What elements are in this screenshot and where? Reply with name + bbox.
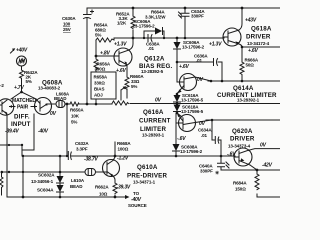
test point circle +40V <box>17 56 27 66</box>
wire 0V lower rail y120 <box>206 119 280 121</box>
wire 0V top rail <box>208 80 280 82</box>
svg-text:+43V: +43V <box>245 18 257 24</box>
svg-text:PRE-DRIVER: PRE-DRIVER <box>127 173 167 180</box>
svg-text:13-34172-4: 13-34172-4 <box>247 41 270 46</box>
svg-text:0V: 0V <box>155 98 162 104</box>
wire Q620A emitter lead <box>250 165 257 170</box>
svg-text:Q614A: Q614A <box>233 85 254 92</box>
svg-text:C634A: C634A <box>198 128 212 133</box>
svg-text:50Ω: 50Ω <box>246 63 255 68</box>
wire Q614A emitter column <box>176 94 178 103</box>
wire C638A row <box>144 37 185 39</box>
wire top +43V rail <box>87 7 280 9</box>
resistor R656A <box>94 56 98 71</box>
svg-text:+1.3V: +1.3V <box>114 42 127 48</box>
svg-text:5%: 5% <box>95 33 101 38</box>
potentiometer wiper arrow <box>121 88 125 101</box>
transistor Q610A pre-driver <box>103 160 120 177</box>
svg-text:R662A: R662A <box>95 185 109 190</box>
svg-text:TO: TO <box>133 191 140 196</box>
svg-text:0V: 0V <box>260 143 267 149</box>
wire bead column down <box>66 104 68 156</box>
svg-text:0V: 0V <box>199 121 206 127</box>
svg-text:330PF: 330PF <box>191 14 204 19</box>
svg-text:BEAD: BEAD <box>54 96 67 101</box>
diode SC616A <box>174 95 181 102</box>
svg-text:13-17596-5: 13-17596-5 <box>181 98 204 103</box>
svg-text:330PF: 330PF <box>200 169 213 174</box>
wire Q616A base column to SC608A <box>176 113 181 156</box>
svg-text:R668A: R668A <box>117 141 131 146</box>
diode SC608A <box>173 144 180 151</box>
diode SC602A <box>57 176 64 183</box>
svg-text:-39.4V: -39.4V <box>5 129 19 135</box>
resistor R642A <box>20 70 24 80</box>
svg-text:Q618A: Q618A <box>251 26 272 33</box>
svg-text:SOURCE: SOURCE <box>128 203 147 208</box>
svg-text:SC604A: SC604A <box>37 188 54 193</box>
svg-text:10K: 10K <box>71 114 80 119</box>
transistor Q620A driver bottom <box>234 148 252 166</box>
svg-text:150Ω: 150Ω <box>235 187 246 192</box>
svg-text:-.6V: -.6V <box>177 136 186 142</box>
wire Q618A emitter to rail <box>239 44 242 62</box>
wire C634A column <box>184 8 186 38</box>
svg-text:Q616A: Q616A <box>143 109 164 116</box>
transistor Q618A driver top <box>223 28 241 46</box>
svg-text:.01: .01 <box>201 133 208 138</box>
wire R654A corner down <box>95 40 97 56</box>
svg-text:25V: 25V <box>63 27 71 32</box>
svg-text:BIAS: BIAS <box>94 87 104 92</box>
wire C636A row <box>177 62 222 81</box>
svg-text:C630A: C630A <box>62 16 76 21</box>
wire input rail y145 <box>0 144 22 146</box>
svg-text:-.6V: -.6V <box>227 152 236 158</box>
wire Q608A output lead to bead <box>51 103 67 105</box>
svg-text:5%: 5% <box>71 120 77 125</box>
svg-text:5%: 5% <box>131 84 137 89</box>
svg-text:13-28392-1: 13-28392-1 <box>237 98 260 103</box>
wire diff pair collector fork <box>11 92 36 99</box>
svg-text:DRIVER: DRIVER <box>246 34 271 41</box>
wire -42V rail <box>257 169 280 171</box>
wire SC602A diode column <box>59 156 61 197</box>
capacitor C630A polarized <box>84 15 92 20</box>
svg-text:-39.3V: -39.3V <box>117 185 131 191</box>
transistor Q616A current limiter bottom <box>176 114 196 132</box>
wire Q612A emitter column <box>126 65 128 98</box>
svg-text:DRIVER: DRIVER <box>230 136 255 143</box>
diode SC606A down right column <box>174 42 181 49</box>
wire C634A lower column <box>212 120 221 156</box>
wire bottom right rail <box>257 196 280 198</box>
wire x23 column <box>22 156 24 197</box>
wire mid 0V rail y103 <box>67 103 280 106</box>
transistor Q612A bias reg <box>114 48 132 66</box>
wire rail y172 to pre-driver base <box>2 171 105 173</box>
svg-text:+.7V: +.7V <box>14 85 24 91</box>
svg-text:L610A: L610A <box>71 178 85 183</box>
arrow +40V <box>11 50 14 53</box>
wire Q620A collector 0V lead <box>249 149 281 151</box>
wire Q612A collector lead <box>129 38 133 50</box>
svg-text:10Ω: 10Ω <box>99 192 108 197</box>
svg-text:0V: 0V <box>50 111 57 117</box>
transistor Q608A left of matched pair <box>0 99 14 115</box>
resistor R660A <box>125 77 129 89</box>
wire R666A bottom lead <box>241 76 243 81</box>
svg-text:+1.3V: +1.3V <box>209 42 222 48</box>
wire bottom rail to arrow <box>7 196 125 198</box>
wire C630A column <box>86 8 88 104</box>
transistor Q614A current limiter top <box>178 74 197 94</box>
svg-text:13-28392-5: 13-28392-5 <box>141 69 164 74</box>
wire left emitter column <box>6 115 8 197</box>
svg-text:C632A: C632A <box>75 141 89 146</box>
wire R658A box bottom lead <box>95 99 97 104</box>
svg-text:.01: .01 <box>148 46 155 51</box>
svg-text:INPUT: INPUT <box>11 121 31 128</box>
wire R684A column <box>256 170 258 197</box>
svg-text:PAIR: PAIR <box>17 105 29 111</box>
wire Q614A base column <box>177 62 181 82</box>
diode SC604A <box>57 185 64 192</box>
box R658A bias adj <box>91 72 116 99</box>
svg-text:R658A: R658A <box>94 75 108 80</box>
capacitor C634A 330PF top <box>179 12 190 18</box>
transistor Q608A right of matched pair <box>35 98 52 115</box>
wire driver base rail y156 <box>22 155 235 157</box>
svg-text:-1.2V: -1.2V <box>117 156 129 162</box>
svg-text:13-17596-2: 13-17596-2 <box>180 149 203 154</box>
wire Q618A base lead <box>185 37 224 39</box>
svg-text:330Ω: 330Ω <box>94 81 105 86</box>
arrow to -40V source <box>125 195 130 199</box>
resistor R684A <box>255 174 259 190</box>
svg-text:100Ω: 100Ω <box>118 147 129 152</box>
wire Q616A collector lead <box>195 120 212 123</box>
svg-text:-2: -2 <box>0 83 4 88</box>
svg-text:.01: .01 <box>196 58 203 63</box>
svg-text:BEAD: BEAD <box>70 184 83 189</box>
resistor R652A <box>131 16 135 29</box>
wire Q616A emitter lead <box>177 113 182 117</box>
svg-text:-38.7V: -38.7V <box>84 157 98 163</box>
resistor R654A horizontal <box>96 38 114 42</box>
svg-text:3.3PF: 3.3PF <box>76 147 88 152</box>
wire Q610A collector lead <box>113 156 115 160</box>
svg-text:-42V: -42V <box>262 163 273 169</box>
svg-text:R650A: R650A <box>70 108 84 113</box>
svg-text:+.6V: +.6V <box>116 68 126 74</box>
wire +40V stem <box>21 66 23 92</box>
svg-text:Q620A: Q620A <box>232 128 253 135</box>
potentiometer R658A body on rail <box>112 101 129 105</box>
resistor R650A horizontal <box>70 102 79 106</box>
capacitor C640A <box>218 162 230 168</box>
capacitor C638A in diode row <box>148 35 152 42</box>
capacitor C632A <box>68 152 71 160</box>
resistor R662A <box>113 183 117 194</box>
svg-text:DIFF.: DIFF. <box>14 114 30 121</box>
svg-text:+.6V: +.6V <box>248 48 258 54</box>
wire diode stack column SC616A SC618A <box>176 103 178 113</box>
svg-text:SC602A: SC602A <box>38 173 55 178</box>
resistor R666A <box>240 62 244 76</box>
svg-text:13-40083-2: 13-40083-2 <box>38 86 61 91</box>
svg-text:13-34371-1: 13-34371-1 <box>133 180 156 185</box>
wire R652A column <box>132 8 134 38</box>
svg-text:MATCHED: MATCHED <box>12 98 36 104</box>
resistor cut at left edge <box>0 172 3 195</box>
svg-text:R684A: R684A <box>233 181 247 186</box>
wire right emitter column jog <box>22 114 34 156</box>
svg-text:+.8V: +.8V <box>100 51 110 57</box>
svg-text:5%: 5% <box>26 79 32 84</box>
wire diode loop upper branch <box>144 31 164 38</box>
svg-text:Q610A: Q610A <box>137 164 158 171</box>
svg-text:13-34056-1: 13-34056-1 <box>31 179 54 184</box>
svg-text:100: 100 <box>63 22 71 27</box>
svg-text:CURRENT: CURRENT <box>139 118 171 125</box>
svg-text:13-17596-2: 13-17596-2 <box>133 24 156 29</box>
svg-text:390Ω: 390Ω <box>95 67 106 72</box>
svg-text:+.6V: +.6V <box>179 64 189 70</box>
wire C640A column <box>221 156 257 170</box>
ferrite bead L610A <box>85 169 96 176</box>
diode SC618A <box>174 105 181 112</box>
diode SC606A right-pointing with bar <box>155 28 162 35</box>
wire Q614A collector lead <box>195 77 211 81</box>
svg-text:Q612A: Q612A <box>144 56 165 63</box>
svg-text:13-17596-2: 13-17596-2 <box>182 45 205 50</box>
svg-text:13-28393-1: 13-28393-1 <box>142 133 165 138</box>
wire Q610A emitter lead <box>113 176 115 197</box>
wire +0.6V output rail <box>242 46 280 48</box>
wire Q618A collector <box>239 8 242 30</box>
svg-text:1/2K: 1/2K <box>117 21 127 26</box>
svg-text:+40V: +40V <box>16 48 28 54</box>
capacitor C636A <box>214 59 218 66</box>
svg-text:ADJ: ADJ <box>94 93 103 98</box>
wire Q612A base lead <box>96 55 115 57</box>
svg-text:13-17596-5: 13-17596-5 <box>181 109 204 114</box>
ferrite bead L608A <box>56 101 65 108</box>
capacitor C634A lower <box>215 137 219 144</box>
svg-text:0V: 0V <box>197 77 204 83</box>
wire SC606A right diode column <box>176 38 178 62</box>
svg-text:13-34373-4: 13-34373-4 <box>228 144 251 149</box>
wire mid rail base row y38 <box>114 37 185 39</box>
wire R668A stub <box>114 142 116 156</box>
svg-text:-40V: -40V <box>38 129 49 135</box>
